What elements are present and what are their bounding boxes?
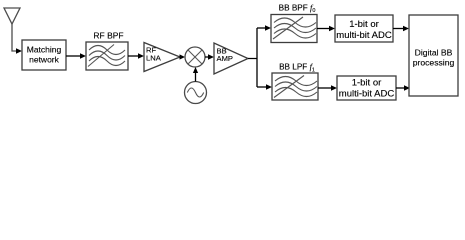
svg-text:Digital BB: Digital BB — [415, 48, 453, 58]
svg-text:BB BPF f0: BB BPF f0 — [279, 3, 316, 14]
svg-text:BB LPF f1: BB LPF f1 — [279, 63, 315, 74]
svg-text:RF BPF: RF BPF — [93, 31, 123, 41]
svg-text:1-bit or: 1-bit or — [352, 78, 382, 89]
svg-text:AMP: AMP — [217, 54, 233, 63]
svg-text:multi-bit ADC: multi-bit ADC — [339, 89, 395, 100]
svg-text:multi-bit ADC: multi-bit ADC — [336, 30, 392, 41]
svg-text:Matching: Matching — [27, 45, 62, 55]
svg-text:processing: processing — [413, 58, 455, 68]
svg-text:network: network — [29, 54, 60, 64]
svg-text:1-bit or: 1-bit or — [349, 19, 379, 30]
svg-text:LNA: LNA — [146, 53, 162, 62]
